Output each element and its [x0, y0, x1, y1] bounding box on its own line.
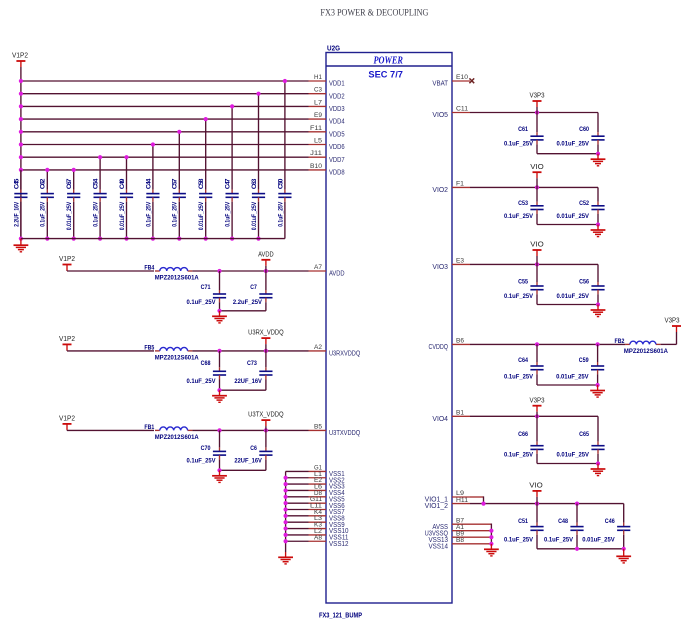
- power symbol AVDD: [258, 249, 274, 271]
- wire VSS7: [286, 509, 309, 511]
- svg-text:C73: C73: [247, 360, 257, 367]
- power symbol VIO (VIO2): [530, 162, 544, 188]
- wire V3P3 riser: [676, 332, 678, 344]
- pin AVSS (B7): [432, 517, 470, 530]
- junction VSS bus / VSS2: [284, 476, 288, 480]
- svg-text:C45: C45: [13, 178, 20, 189]
- power symbol U3RX_VDDQ: [248, 328, 284, 351]
- svg-text:VIO4: VIO4: [432, 414, 448, 423]
- junction VIO1_1/VIO1_2: [481, 502, 485, 506]
- svg-text:FB1: FB1: [144, 424, 154, 431]
- pin VSS14 (B8): [429, 537, 471, 550]
- svg-text:B10: B10: [310, 163, 322, 170]
- svg-text:VDD8: VDD8: [329, 168, 345, 177]
- pin VIO1_1 (L9): [425, 490, 470, 503]
- wire ground rail (A2 section): [220, 389, 266, 391]
- wire ground rail (VIO1): [537, 548, 624, 550]
- IC U2G FX3_121_BUMP power block: [319, 44, 452, 620]
- junction V1P2 vertical / VDD6 bus: [19, 142, 23, 146]
- svg-text:E3: E3: [456, 258, 464, 265]
- svg-text:V1P2: V1P2: [59, 414, 75, 423]
- pin VDD1 (H1): [309, 74, 345, 88]
- junction C62 top / bus: [45, 168, 49, 172]
- ferrite bead FB5 MPZ2012S601A: [144, 345, 199, 362]
- capacitor C67 0.01uF_25V: [66, 170, 80, 239]
- svg-text:MPZ2012S601A: MPZ2012S601A: [155, 275, 199, 282]
- svg-text:FB5: FB5: [144, 345, 154, 352]
- pin VIO2 (F1): [432, 181, 470, 194]
- ground (AVDD section): [212, 311, 227, 323]
- svg-text:FX3_121_BUMP: FX3_121_BUMP: [319, 611, 362, 620]
- svg-text:C71: C71: [201, 284, 211, 291]
- svg-text:C64: C64: [518, 357, 528, 364]
- junction C62 bottom / ground rail: [45, 237, 49, 241]
- svg-text:VIO: VIO: [529, 481, 543, 490]
- wire V1P2 bus to VDD6: [21, 144, 309, 146]
- svg-text:E9: E9: [314, 112, 322, 119]
- ground (VIO5): [591, 154, 606, 166]
- junction C47 top / bus: [230, 104, 234, 108]
- pin VDD2 (C3): [309, 87, 345, 101]
- capacitor C51 0.1uF_25V: [504, 504, 544, 549]
- svg-text:VBAT: VBAT: [432, 79, 448, 88]
- svg-text:0.01uF_25V: 0.01uF_25V: [557, 140, 590, 147]
- junction V1P2 vertical / VDD4 bus: [19, 117, 23, 121]
- svg-text:VIO3: VIO3: [432, 262, 448, 271]
- pin CVDDQ (B6): [429, 338, 471, 351]
- svg-text:C50: C50: [277, 178, 284, 189]
- capacitor C65 0.01uF_25V: [557, 416, 605, 463]
- wire VSS3: [286, 483, 309, 485]
- capacitor C47 0.1uF_25V: [225, 106, 239, 238]
- svg-text:0.1uF_25V: 0.1uF_25V: [187, 299, 217, 306]
- svg-text:0.1uF_25V: 0.1uF_25V: [544, 536, 574, 543]
- pin VIO1_2 (H11): [425, 497, 470, 510]
- svg-text:MPZ2012S601A: MPZ2012S601A: [624, 348, 668, 355]
- ground (VSS bus): [278, 552, 293, 564]
- junction C63 top / bus: [256, 92, 260, 96]
- svg-text:0.1uF_25V: 0.1uF_25V: [93, 201, 100, 227]
- wire ground rail (AVDD section): [220, 310, 266, 312]
- svg-text:AVDD: AVDD: [329, 269, 345, 278]
- capacitor C64 0.1uF_25V: [504, 344, 544, 385]
- junction rail/ground (VIO5): [596, 152, 600, 156]
- svg-text:A7: A7: [314, 264, 322, 271]
- svg-text:C56: C56: [579, 278, 589, 285]
- junction rail/ground (A2 section): [217, 388, 221, 392]
- junction AVSS bus / VSS14: [489, 542, 493, 546]
- svg-text:C57: C57: [172, 178, 179, 189]
- junction VSS bus / VSS12: [284, 539, 288, 543]
- junction rail/ground (B5 section): [217, 468, 221, 472]
- junction VSS bus / VSS10: [284, 526, 288, 530]
- junction rail/ground (VIO2): [596, 222, 600, 226]
- svg-text:U3RXVDDQ: U3RXVDDQ: [329, 349, 360, 358]
- svg-text:VDD1: VDD1: [329, 79, 345, 88]
- svg-text:C6: C6: [250, 445, 257, 452]
- svg-text:MPZ2012S601A: MPZ2012S601A: [155, 355, 199, 362]
- svg-text:0.01uF_25V: 0.01uF_25V: [557, 213, 590, 220]
- junction C64 top: [535, 342, 539, 346]
- wire V1P2 bus to VDD1: [21, 80, 309, 82]
- svg-text:U3TXVDDQ: U3TXVDDQ: [329, 428, 360, 437]
- svg-text:C65: C65: [579, 431, 589, 438]
- wire V1P2 bus to VDD5: [21, 131, 309, 133]
- no-connect X on VBAT pin E10: [469, 78, 474, 83]
- pin VDD4 (E9): [309, 112, 345, 126]
- capacitor C53 0.1uF_25V: [504, 187, 544, 224]
- wire VSS9: [286, 521, 309, 523]
- ground (AVSS group): [484, 544, 499, 556]
- junction V1P2 vertical / VDD7 bus: [19, 155, 23, 159]
- power symbol U3TX_VDDQ: [248, 410, 284, 431]
- junction C48 top: [575, 502, 579, 506]
- svg-text:0.1uF_25V: 0.1uF_25V: [504, 373, 534, 380]
- junction C67 bottom / ground rail: [72, 237, 76, 241]
- junction rail/ground (CVDDQ): [596, 383, 600, 387]
- capacitor C54 0.1uF_25V: [93, 157, 107, 238]
- junction C61/power top: [535, 110, 539, 114]
- svg-text:C58: C58: [198, 178, 205, 189]
- junction C66/power top: [535, 414, 539, 418]
- svg-text:CVDDQ: CVDDQ: [429, 342, 449, 351]
- svg-text:V3P3: V3P3: [530, 395, 545, 404]
- wire FB2 to V3P3: [661, 343, 677, 345]
- junction C63 bottom / ground rail: [256, 237, 260, 241]
- capacitor C56 0.01uF_25V: [557, 264, 605, 304]
- junction VSS bus / VSS11: [284, 533, 288, 537]
- capacitor C48 0.1uF_25V: [544, 504, 584, 549]
- svg-text:2.2uF_25V: 2.2uF_25V: [233, 299, 263, 306]
- wire ground rail (VIO2): [537, 224, 598, 226]
- wire VSS bus vertical: [285, 471, 287, 552]
- svg-text:C53: C53: [518, 200, 528, 207]
- svg-text:U3TX_VDDQ: U3TX_VDDQ: [248, 410, 284, 419]
- wire VIO4 to caps: [470, 415, 598, 417]
- svg-text:FB2: FB2: [615, 338, 625, 345]
- pin VSS9 (L3): [309, 515, 345, 529]
- wire ground rail (CVDDQ): [537, 384, 598, 386]
- wire V1P2 to FB5: [67, 350, 154, 352]
- svg-text:H11: H11: [456, 497, 468, 504]
- svg-text:C46: C46: [605, 518, 615, 525]
- wire V1P2 bus to VDD2: [21, 93, 309, 95]
- wire VSS2: [286, 477, 309, 479]
- wire VSS13: [470, 536, 491, 538]
- svg-text:VDD5: VDD5: [329, 129, 345, 138]
- pin AVDD (A7): [309, 264, 345, 278]
- ground (VIO2): [591, 225, 606, 237]
- junction C44 top / bus: [151, 142, 155, 146]
- junction AVSS bus / VSS13: [489, 535, 493, 539]
- capacitor C49 0.01uF_25V: [119, 157, 133, 238]
- junction C68 top: [217, 349, 221, 353]
- wire ground rail (B5 section): [220, 469, 266, 471]
- junction rail/ground (VIO4): [596, 461, 600, 465]
- svg-text:0.1uF_25V: 0.1uF_25V: [225, 201, 232, 227]
- ground (B5 section): [212, 470, 227, 482]
- wire VIO2 to caps: [470, 186, 598, 188]
- svg-text:V3P3: V3P3: [530, 91, 545, 100]
- svg-text:E10: E10: [456, 74, 468, 81]
- svg-text:0.1uF_25V: 0.1uF_25V: [172, 201, 179, 227]
- power symbol VIO (VIO1): [529, 481, 543, 504]
- pin VIO5 (C11): [432, 106, 470, 119]
- svg-text:0.1uF_25V: 0.1uF_25V: [504, 213, 534, 220]
- wire V1P2 vertical bus: [20, 81, 22, 239]
- pin VSS5 (D8): [309, 490, 345, 504]
- capacitor C61 0.1uF_25V: [504, 113, 544, 154]
- svg-text:V1P2: V1P2: [12, 51, 28, 60]
- pin VIO3 (E3): [432, 258, 470, 271]
- capacitor C7 2.2uF_25V: [233, 271, 273, 311]
- svg-text:B8: B8: [456, 537, 464, 544]
- svg-text:VIO2: VIO2: [432, 185, 448, 194]
- wire V1P2 bus to VDD8: [21, 169, 309, 171]
- wire VSS11: [286, 534, 309, 536]
- pin VSS13 (B9): [429, 530, 471, 543]
- junction V1P2 vertical / VDD8 bus: [19, 168, 23, 172]
- wire VSS6: [286, 502, 309, 504]
- pin VSS8 (K4): [309, 509, 345, 523]
- capacitor C57 0.1uF_25V: [172, 132, 186, 239]
- capacitor C73 22UF_16V: [234, 351, 272, 390]
- svg-text:C49: C49: [119, 178, 126, 189]
- junction C70 top: [217, 428, 221, 432]
- junction C58 top / bus: [204, 117, 208, 121]
- capacitor C71 0.1uF_25V: [187, 271, 227, 311]
- pin VSS10 (K3): [309, 522, 349, 536]
- junction VSS bus / VSS3: [284, 482, 288, 486]
- svg-text:MPZ2012S601A: MPZ2012S601A: [155, 434, 199, 441]
- svg-text:VIO: VIO: [530, 240, 544, 249]
- pin U3TXVDDQ (B5): [309, 423, 361, 437]
- svg-text:C60: C60: [579, 126, 589, 133]
- svg-text:V3P3: V3P3: [665, 316, 680, 325]
- pin VSS1 (G1): [309, 464, 345, 478]
- junction C73/power top: [264, 349, 268, 353]
- junction C7/power top: [264, 269, 268, 273]
- capacitor C52 0.01uF_25V: [557, 187, 605, 224]
- junction AVSS bus / U3VSSQ: [489, 529, 493, 533]
- wire VIO5 to caps: [470, 112, 598, 114]
- junction C49 bottom / ground rail: [124, 237, 128, 241]
- wire VSS4: [286, 489, 309, 491]
- junction C57 top / bus: [177, 130, 181, 134]
- pin VSS3 (E2): [309, 477, 345, 491]
- capacitor C45 2.2UF_16V: [13, 170, 27, 239]
- junction C67 top / bus: [72, 168, 76, 172]
- pin VDD8 (B10): [309, 163, 345, 177]
- capacitor C60 0.01uF_25V: [557, 113, 605, 154]
- svg-text:2.2UF_16V: 2.2UF_16V: [13, 201, 20, 227]
- svg-text:C7: C7: [250, 284, 257, 291]
- wire FB5 to pin A2: [192, 350, 308, 352]
- svg-text:0.1uF_25V: 0.1uF_25V: [145, 201, 152, 227]
- ground (cap bank): [14, 239, 29, 252]
- svg-text:C11: C11: [456, 106, 468, 113]
- junction C47 bottom / ground rail: [230, 237, 234, 241]
- svg-text:C3: C3: [314, 87, 322, 94]
- wire VSS12: [286, 540, 309, 542]
- svg-text:L5: L5: [314, 138, 322, 145]
- svg-text:F1: F1: [456, 181, 464, 188]
- wire V1P2 bus to VDD3: [21, 105, 309, 107]
- svg-text:SEC 7/7: SEC 7/7: [368, 69, 403, 79]
- wire VSS8: [286, 515, 309, 517]
- capacitor C68 0.1uF_25V: [187, 351, 227, 390]
- wire VIO1_2 to caps: [470, 503, 624, 505]
- svg-text:VDD3: VDD3: [329, 104, 345, 113]
- power symbol V1P2 (AVDD section): [59, 254, 75, 271]
- svg-text:0.1uF_25V: 0.1uF_25V: [504, 452, 534, 459]
- capacitor C50 0.1uF_25V: [277, 81, 291, 239]
- junction C50 top / bus: [283, 79, 287, 83]
- pin VSS6 (G11): [309, 496, 345, 510]
- svg-text:0.01uF_25V: 0.01uF_25V: [557, 293, 590, 300]
- power symbol V1P2 (A2 section): [59, 334, 75, 351]
- svg-text:V1P2: V1P2: [59, 334, 75, 343]
- pin VDD3 (L7): [309, 99, 345, 113]
- svg-text:C52: C52: [579, 200, 589, 207]
- capacitor C44 0.1uF_25V: [145, 145, 159, 239]
- wire ground rail (VIO3): [537, 304, 598, 306]
- power symbol VIO (VIO3): [530, 240, 544, 265]
- svg-text:A2: A2: [314, 344, 322, 351]
- pin VDD6 (L5): [309, 138, 345, 152]
- wire FB1 to pin B5: [192, 429, 308, 431]
- wire VSS5: [286, 496, 309, 498]
- wire ground rail under cap bank: [21, 238, 285, 240]
- ground (CVDDQ): [590, 385, 605, 397]
- svg-text:C62: C62: [40, 178, 47, 189]
- svg-text:C68: C68: [201, 360, 211, 367]
- svg-text:0.01uF_25V: 0.01uF_25V: [556, 373, 589, 380]
- svg-text:VDD2: VDD2: [329, 91, 345, 100]
- junction C58 bottom / ground rail: [204, 237, 208, 241]
- junction C53/power top: [535, 185, 539, 189]
- capacitor C66 0.1uF_25V: [504, 416, 544, 463]
- capacitor C58 0.01uF_25V: [198, 119, 212, 239]
- junction C54 top / bus: [98, 155, 102, 159]
- svg-text:AVDD: AVDD: [258, 249, 274, 258]
- junction C54 bottom / ground rail: [98, 237, 102, 241]
- pin VSS7 (L11): [309, 503, 345, 517]
- junction C48 bottom: [575, 547, 579, 551]
- svg-text:C67: C67: [66, 178, 73, 189]
- svg-text:C70: C70: [201, 445, 211, 452]
- svg-text:FB4: FB4: [144, 265, 154, 272]
- capacitor C70 0.1uF_25V: [187, 430, 227, 470]
- ferrite bead FB2 MPZ2012S601A: [615, 338, 669, 355]
- pin VSS11 (L2): [309, 528, 349, 542]
- pin VBAT (E10): [432, 74, 470, 87]
- junction rail/ground (VIO1): [622, 547, 626, 551]
- junction V1P2 vertical / VDD2 bus: [19, 92, 23, 96]
- wire VSS10: [286, 528, 309, 530]
- junction C44 bottom / ground rail: [151, 237, 155, 241]
- ground (VIO4): [591, 464, 606, 476]
- svg-text:0.01uF_25V: 0.01uF_25V: [582, 536, 615, 543]
- wire AVSS group bus: [470, 523, 491, 525]
- svg-text:0.1uF_25V: 0.1uF_25V: [504, 140, 534, 147]
- ground (A2 section): [212, 390, 227, 402]
- power symbol V3P3 (CVDDQ): [665, 316, 682, 332]
- junction V1P2 vertical / VDD3 bus: [19, 104, 23, 108]
- svg-text:VIO5: VIO5: [432, 110, 448, 119]
- junction C49 top / bus: [124, 155, 128, 159]
- svg-text:22UF_16V: 22UF_16V: [234, 378, 262, 385]
- junction C71 top: [217, 269, 221, 273]
- svg-text:B6: B6: [456, 338, 464, 345]
- pin VSS12 (A8): [309, 534, 349, 548]
- pin VSS2 (L1): [309, 471, 345, 485]
- svg-text:VIO: VIO: [530, 162, 544, 171]
- svg-text:C51: C51: [518, 518, 528, 525]
- capacitor C46 0.01uF_25V: [582, 504, 630, 549]
- svg-text:0.1uF_25V: 0.1uF_25V: [187, 378, 217, 385]
- power symbol V3P3 (VIO5): [530, 91, 545, 113]
- junction C59 top: [596, 342, 600, 346]
- capacitor C59 0.01uF_25V: [556, 344, 604, 385]
- svg-text:0.1uF_25V: 0.1uF_25V: [504, 293, 534, 300]
- svg-text:0.01uF_25V: 0.01uF_25V: [251, 201, 258, 230]
- power symbol V3P3 (VIO4): [530, 395, 545, 416]
- svg-text:U3RX_VDDQ: U3RX_VDDQ: [248, 328, 284, 337]
- junction VSS bus / VSS6: [284, 501, 288, 505]
- junction VSS bus / VSS8: [284, 514, 288, 518]
- svg-text:VDD7: VDD7: [329, 155, 345, 164]
- junction C57 bottom / ground rail: [177, 237, 181, 241]
- junction VSS bus / VSS9: [284, 520, 288, 524]
- ferrite bead FB4 MPZ2012S601A: [144, 265, 199, 282]
- svg-text:B5: B5: [314, 423, 322, 430]
- svg-text:0.01uF_25V: 0.01uF_25V: [119, 201, 126, 230]
- pin VSS4 (L6): [309, 483, 345, 497]
- junction VSS bus / VSS7: [284, 507, 288, 511]
- capacitor C6 22UF_16V: [234, 430, 272, 470]
- svg-text:VDD4: VDD4: [329, 117, 345, 126]
- svg-text:C63: C63: [251, 178, 258, 189]
- svg-text:C47: C47: [225, 178, 232, 189]
- svg-text:VIO1_2: VIO1_2: [425, 501, 448, 510]
- wire CVDDQ to FB2: [470, 343, 625, 345]
- svg-text:VDD6: VDD6: [329, 142, 345, 151]
- wire FB4 to pin AVDD: [192, 270, 308, 272]
- svg-text:F11: F11: [310, 125, 322, 132]
- svg-text:C44: C44: [145, 178, 152, 189]
- svg-text:POWER: POWER: [373, 56, 403, 67]
- junction V1P2 vertical / VDD5 bus: [19, 130, 23, 134]
- svg-text:L7: L7: [314, 99, 322, 106]
- wire VIO1_1 L9 jog: [470, 496, 484, 498]
- capacitor C55 0.1uF_25V: [504, 264, 544, 304]
- svg-text:FX3 POWER & DECOUPLING: FX3 POWER & DECOUPLING: [320, 8, 428, 18]
- pin VDD5 (F11): [309, 125, 345, 139]
- pin U3RXVDDQ (A2): [309, 344, 361, 358]
- wire V1P2 to FB4: [67, 270, 154, 272]
- pin VIO4 (B1): [432, 410, 470, 423]
- wire VIO3 to caps: [470, 263, 598, 265]
- svg-text:0.1uF_25V: 0.1uF_25V: [187, 458, 217, 465]
- svg-text:U2G: U2G: [327, 44, 340, 53]
- svg-text:0.1uF_25V: 0.1uF_25V: [277, 201, 284, 227]
- wire V1P2 to FB1: [67, 429, 154, 431]
- power symbol V1P2 (B5 section): [59, 414, 75, 431]
- junction VSS bus / VSS5: [284, 495, 288, 499]
- ground (VIO1): [616, 549, 631, 563]
- svg-text:C55: C55: [518, 278, 528, 285]
